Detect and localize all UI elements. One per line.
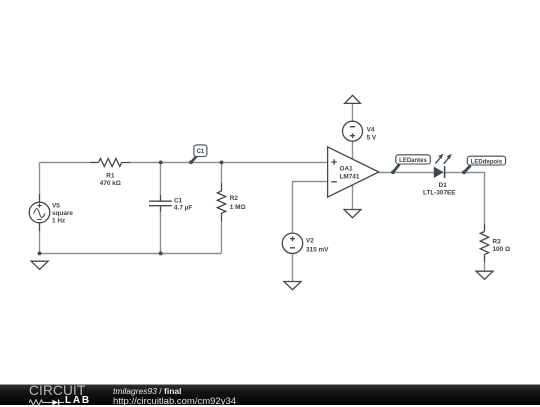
svg-text:C1: C1 xyxy=(174,197,183,204)
svg-text:V2: V2 xyxy=(306,238,314,245)
svg-text:1 Hz: 1 Hz xyxy=(52,217,65,224)
svg-text:R2: R2 xyxy=(230,195,239,202)
svg-text:D1: D1 xyxy=(439,182,448,189)
svg-text:100 Ω: 100 Ω xyxy=(493,246,511,253)
svg-text:5 V: 5 V xyxy=(367,134,377,141)
svg-text:470 kΩ: 470 kΩ xyxy=(100,180,121,187)
svg-text:R3: R3 xyxy=(493,238,502,245)
svg-text:LEDdepois: LEDdepois xyxy=(471,159,503,165)
svg-text:1 MΩ: 1 MΩ xyxy=(230,204,246,211)
svg-text:square: square xyxy=(52,210,73,217)
svg-text:OA1: OA1 xyxy=(340,165,354,172)
svg-text:LEDantes: LEDantes xyxy=(399,158,427,164)
svg-text:V5: V5 xyxy=(52,203,60,210)
svg-text:4.7 µF: 4.7 µF xyxy=(174,205,192,212)
svg-text:V4: V4 xyxy=(367,126,375,133)
svg-text:R1: R1 xyxy=(106,173,115,180)
svg-text:LTL-307EE: LTL-307EE xyxy=(423,190,456,197)
svg-text:C1: C1 xyxy=(197,149,205,155)
svg-text:LM741: LM741 xyxy=(340,173,360,180)
svg-text:315 mV: 315 mV xyxy=(306,246,329,253)
